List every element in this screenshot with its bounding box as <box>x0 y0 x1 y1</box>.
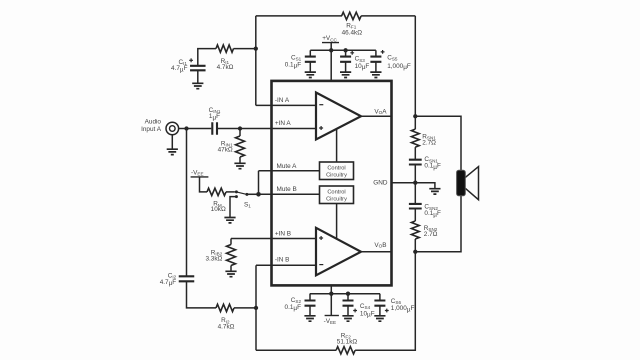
svg-text:Input A: Input A <box>141 126 162 133</box>
svg-text:Control: Control <box>327 189 345 195</box>
capacitor CSN2 <box>409 204 441 219</box>
wire bottom rail left of RF2 <box>256 349 336 351</box>
wire control B to op-amp B <box>336 204 338 239</box>
wire +IN B pin <box>231 238 316 240</box>
ground (jack) <box>167 135 178 155</box>
ground (CS4) <box>342 306 353 322</box>
wire -IN A pin <box>256 104 316 106</box>
svg-text:+IN A: +IN A <box>275 120 292 127</box>
resistor RIB2 <box>205 239 235 272</box>
resistor RI1 <box>216 45 234 71</box>
svg-text:Control: Control <box>327 165 345 171</box>
svg-text:10kΩ: 10kΩ <box>211 206 226 213</box>
svg-text:Circuitry: Circuitry <box>326 172 347 178</box>
control circuitry A box <box>320 162 354 180</box>
wire switch ground branch <box>230 197 236 218</box>
control circuitry B box <box>320 186 354 204</box>
node VoB (junction) <box>413 250 417 254</box>
capacitor CSN1 <box>409 156 441 171</box>
resistor RIN1 <box>218 129 245 164</box>
node IN (junction) <box>184 126 188 130</box>
capacitor CS4 <box>343 294 375 319</box>
node VoA (junction) <box>413 114 417 118</box>
svg-text:Mute B: Mute B <box>277 186 297 193</box>
wire VoA inside box <box>361 115 392 117</box>
svg-text:1,000µF: 1,000µF <box>387 63 411 71</box>
ground (CS5) <box>370 62 381 78</box>
wire switch pole to node MUTE <box>247 193 259 195</box>
svg-text:2.7Ω: 2.7Ω <box>424 231 438 238</box>
svg-text:46.4kΩ: 46.4kΩ <box>342 29 363 36</box>
wire CI1 to RI1 <box>198 49 216 66</box>
pin label VoA <box>374 109 387 116</box>
wire node GND to CSN2 <box>414 183 416 204</box>
wire RM to switch contact <box>226 191 235 193</box>
wire VoB inside box <box>361 251 392 253</box>
svg-text:GND: GND <box>373 180 388 187</box>
ground (CS2) <box>304 306 315 322</box>
ground (CI1) <box>192 70 203 88</box>
wire -IN A vertical to top rail <box>255 16 257 106</box>
resistor RF2 <box>336 332 357 354</box>
wire CSN2 to RSN2 <box>414 209 416 222</box>
wire node GND to ground <box>415 183 435 189</box>
pin label GND <box>373 180 388 187</box>
svg-text:3.3kΩ: 3.3kΩ <box>205 255 222 262</box>
wire VoA to speaker <box>415 116 461 170</box>
svg-text:Mute A: Mute A <box>277 163 298 170</box>
ground (RIB2) <box>225 271 236 276</box>
wire VCC stub into IC <box>330 50 332 81</box>
svg-text:4.7kΩ: 4.7kΩ <box>217 64 234 71</box>
ground (GND net) <box>429 189 440 194</box>
svg-text:2.7Ω: 2.7Ω <box>422 139 436 146</box>
svg-text:10µF: 10µF <box>360 310 375 318</box>
node VCC stub (junction) <box>329 48 333 52</box>
wire -IN B pin <box>256 264 316 266</box>
pin label VoB <box>374 242 386 249</box>
svg-text:0.1µF: 0.1µF <box>424 210 441 218</box>
svg-text:+IN B: +IN B <box>275 230 291 237</box>
wire op-amp A to control A <box>336 130 338 163</box>
wire Mute A pin <box>259 170 320 172</box>
wire CIN1 to node INP <box>218 128 240 130</box>
capacitor CI2 <box>160 273 195 287</box>
op-amp B <box>316 228 361 275</box>
node INP (junction) <box>238 126 242 130</box>
capacitor CS3 <box>340 50 369 71</box>
wire Mute B pin <box>247 193 320 195</box>
svg-text:4.7µF: 4.7µF <box>171 65 188 73</box>
svg-text:VOB: VOB <box>374 242 386 249</box>
svg-text:-IN A: -IN A <box>275 97 290 104</box>
capacitor CIN1 <box>209 107 221 135</box>
svg-text:-IN B: -IN B <box>275 257 290 264</box>
pin label +IN A <box>275 120 292 127</box>
svg-text:Audio: Audio <box>145 119 162 126</box>
pin label +IN B <box>275 230 291 237</box>
IC package outline <box>272 81 392 286</box>
svg-text:4.7kΩ: 4.7kΩ <box>218 323 235 330</box>
resistor RSN2 <box>411 221 437 252</box>
pin label Mute A <box>277 163 298 170</box>
wire jack to node IN <box>179 128 187 130</box>
switch S1 <box>235 190 251 208</box>
svg-text:47kΩ: 47kΩ <box>218 146 233 153</box>
wire CSN1 to node GND <box>414 165 416 183</box>
ground (switch) <box>224 218 235 223</box>
wire GND pin <box>392 182 416 184</box>
node GND (junction) <box>413 181 417 185</box>
node -VEE stub (junction) <box>329 292 333 296</box>
capacitor CS2 <box>285 294 316 312</box>
wire right vertical rail to VoA <box>414 16 416 116</box>
wire RI2 to node FBB <box>234 307 256 309</box>
wire top rail left of RF1 <box>256 15 342 17</box>
op-amp A <box>316 93 361 140</box>
resistor RF1 <box>342 12 363 36</box>
svg-text:Circuitry: Circuitry <box>326 196 347 202</box>
wire -VEE rail <box>310 293 380 295</box>
wire IC to -VEE rail <box>330 285 332 293</box>
wire node IN to CIN1 <box>187 128 212 130</box>
resistor RSN1 <box>411 116 436 159</box>
node FBB (junction) <box>254 306 258 310</box>
ground (CS3) <box>340 62 351 78</box>
svg-text:0.1µF: 0.1µF <box>424 163 441 171</box>
pin label Mute B <box>277 186 297 193</box>
node MUTE (junction) <box>256 192 261 197</box>
svg-text:VOA: VOA <box>374 109 387 116</box>
wire -IN B vertical <box>255 265 257 350</box>
svg-text:10µF: 10µF <box>355 63 370 71</box>
wire VoB to speaker <box>415 196 461 252</box>
wire node MUTE up to Mute A <box>258 171 260 195</box>
capacitor CS1 <box>285 50 316 69</box>
wire RI1 to node FBA <box>234 48 256 50</box>
pin label -IN A <box>275 97 290 104</box>
speaker <box>457 167 479 200</box>
capacitor CI1 <box>171 58 206 73</box>
wire bottom rail right of RF2 <box>355 252 415 351</box>
svg-text:4.7µF: 4.7µF <box>160 279 177 287</box>
node CS3 (junction) <box>343 48 347 52</box>
resistor RM <box>207 188 226 213</box>
ground (CS6) <box>374 306 385 322</box>
svg-text:1µF: 1µF <box>209 113 220 121</box>
wire CI2 to RI2 <box>187 281 217 308</box>
power -VEE (mute) <box>191 169 209 192</box>
wire input column down <box>186 129 188 277</box>
node FBA (junction) <box>254 46 258 50</box>
capacitor CS5 <box>370 50 410 71</box>
svg-text:0.1µF: 0.1µF <box>285 304 302 312</box>
capacitor CS6 <box>374 294 414 314</box>
node CS4 (junction) <box>346 292 350 296</box>
wire node INP to +IN A pin <box>240 128 316 130</box>
svg-text:0.1µF: 0.1µF <box>285 62 302 70</box>
audio input jack J1 <box>141 119 179 135</box>
ground (RIN1) <box>234 163 245 168</box>
wire top rail right of RF1 <box>361 15 415 17</box>
power +VCC <box>322 35 339 50</box>
svg-text:51.1kΩ: 51.1kΩ <box>337 339 358 346</box>
wire VCC rail <box>310 49 376 51</box>
svg-text:1,000µF: 1,000µF <box>391 305 415 313</box>
ground (CS1) <box>305 62 316 78</box>
resistor RI2 <box>216 304 235 330</box>
pin label -IN B <box>275 257 290 264</box>
power -VEE <box>324 294 339 325</box>
